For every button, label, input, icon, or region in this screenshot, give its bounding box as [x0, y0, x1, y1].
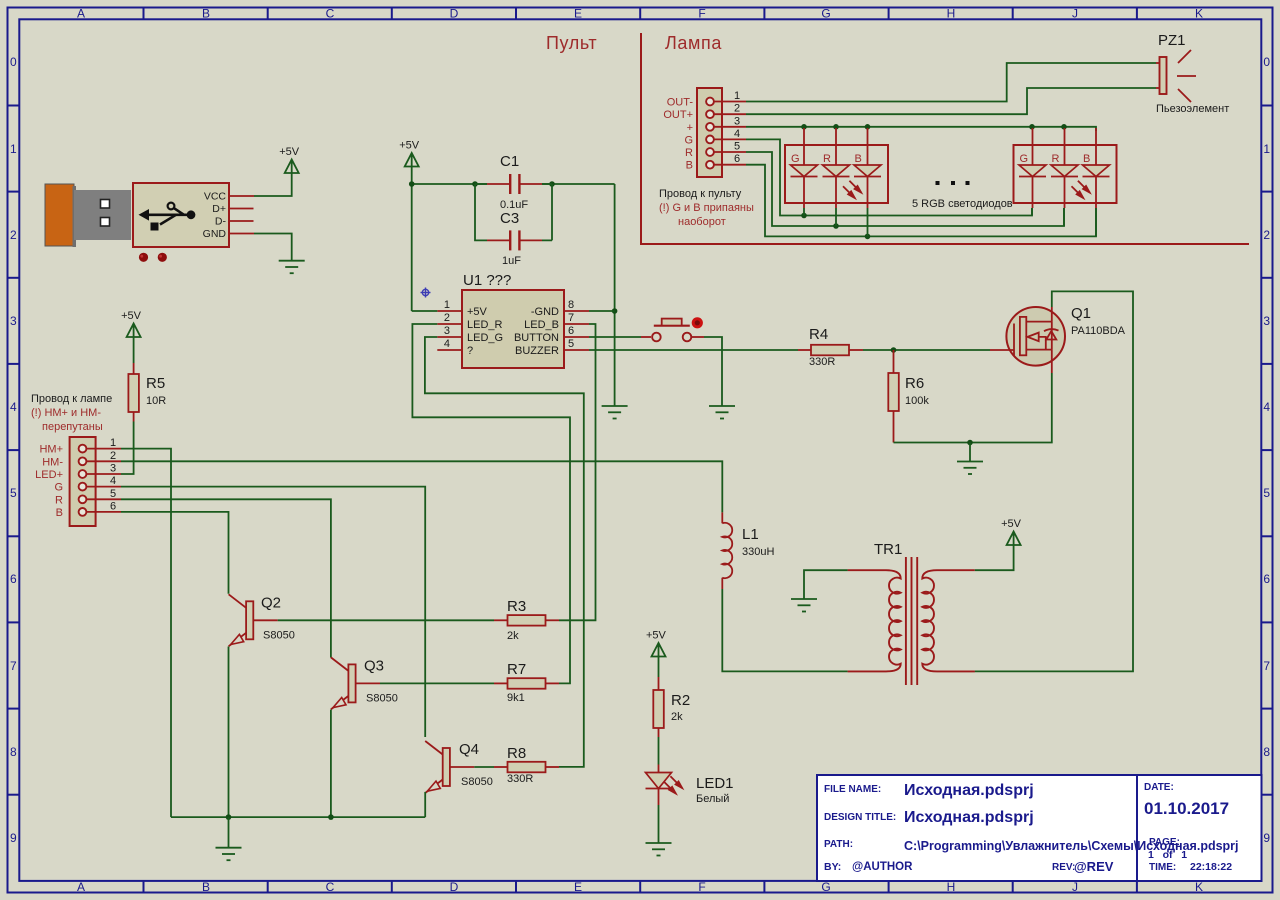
wire OUT+ to PZ1: [746, 88, 1156, 114]
svg-text:F: F: [698, 7, 705, 21]
wire net BUZZER to R4: [589, 349, 798, 351]
wire B net: [746, 165, 1096, 237]
svg-text:J: J: [1072, 880, 1078, 894]
wire button to ground: [704, 337, 722, 406]
wire B pins to rail: [868, 208, 1097, 236]
svg-text:K: K: [1195, 880, 1203, 894]
piezo PZ1: [1156, 32, 1229, 115]
svg-text:B: B: [56, 507, 63, 519]
wire +5V to R5: [133, 337, 135, 363]
wire net LED_R to R7: [412, 324, 570, 683]
wire net BUTTON: [589, 336, 641, 338]
wire LED1 to ground: [658, 805, 660, 843]
junction +5V: [472, 181, 478, 187]
svg-text:C: C: [326, 880, 335, 894]
svg-text:LED_G: LED_G: [467, 332, 503, 344]
resistor R6 100k: [888, 373, 929, 411]
wire R6 stubs: [893, 350, 895, 443]
svg-text:3: 3: [1263, 314, 1270, 328]
USB pin GND stub: [229, 233, 254, 235]
wire C3 branch: [475, 184, 552, 240]
ellipsis dots: [936, 181, 970, 185]
power +5V: [1001, 518, 1022, 545]
svg-text:1: 1: [444, 299, 450, 311]
power +5V: [399, 140, 420, 167]
svg-text:330R: 330R: [809, 356, 835, 368]
svg-text:4: 4: [444, 338, 450, 350]
junction +rail: [1029, 124, 1035, 130]
wire GND to ground: [254, 234, 292, 261]
svg-text:5: 5: [568, 338, 574, 350]
svg-text:Q1: Q1: [1071, 305, 1091, 322]
svg-text:C:\Programming\Увлажнитель\Схе: C:\Programming\Увлажнитель\Схемы\Исходна…: [904, 839, 1239, 853]
wire HM+ pin1 down: [121, 449, 171, 817]
svg-text:1: 1: [1263, 142, 1270, 156]
svg-text:Q4: Q4: [459, 741, 479, 758]
resistor R5 10R: [128, 374, 166, 412]
ground: [602, 406, 628, 419]
svg-text:J: J: [1072, 7, 1078, 21]
wire R8 stubs: [494, 766, 559, 768]
svg-text:перепутаны: перепутаны: [42, 421, 103, 433]
ground: [791, 599, 817, 612]
wire HM- pin2 to L1: [121, 461, 722, 512]
svg-text:6: 6: [110, 500, 116, 512]
svg-text:HM-: HM-: [42, 456, 63, 468]
USB trident icon: [139, 203, 196, 231]
svg-text:LED1: LED1: [696, 775, 734, 792]
svg-text:5: 5: [1263, 486, 1270, 500]
svg-text:9: 9: [1263, 831, 1270, 845]
svg-text:6: 6: [568, 325, 574, 337]
wire emitter ground rail: [171, 816, 425, 818]
svg-text:Пульт: Пульт: [546, 33, 597, 53]
wire R5 to pin3: [121, 422, 134, 475]
wire R net: [746, 152, 1064, 226]
svg-text:E: E: [574, 7, 582, 21]
svg-text:D: D: [450, 7, 459, 21]
wire rail ground stem: [228, 817, 230, 847]
svg-text:1: 1: [110, 437, 116, 449]
svg-text:G: G: [821, 7, 830, 21]
power +5V: [279, 146, 300, 173]
junction +5V: [549, 181, 555, 187]
svg-text:D+: D+: [212, 203, 226, 215]
note Провод к пульту: [659, 188, 754, 228]
svg-text:Лампа: Лампа: [665, 33, 722, 53]
svg-text:10R: 10R: [146, 395, 166, 407]
svg-text:5: 5: [734, 141, 740, 153]
svg-text:6: 6: [734, 153, 740, 165]
svg-text:OUT+: OUT+: [663, 109, 693, 121]
wire L1 to TR1 primary bottom: [722, 589, 847, 671]
junction +rail: [801, 124, 807, 130]
junction gnd rail: [226, 814, 232, 820]
wire Q1 drain to TR1 secondary: [975, 291, 1133, 671]
ground: [279, 261, 305, 274]
svg-text:8: 8: [10, 745, 17, 759]
svg-text:+: +: [687, 122, 693, 134]
wire Q3 emitter down: [330, 710, 332, 818]
svg-text:C3: C3: [500, 210, 519, 227]
wire net LED_B to R3: [559, 324, 596, 620]
wire ground stem: [969, 443, 971, 462]
svg-text:+5V: +5V: [1001, 518, 1022, 530]
wire R2 to LED1: [658, 737, 660, 765]
svg-text:330R: 330R: [507, 773, 533, 785]
svg-text:4: 4: [734, 128, 740, 140]
LED1 Белый: [646, 765, 734, 806]
wire C1 right: [542, 183, 552, 185]
svg-text:G: G: [791, 153, 800, 165]
wire R3 stubs: [494, 619, 559, 621]
wire R5 stubs: [133, 363, 135, 422]
svg-text:?: ?: [467, 345, 473, 357]
lamp section divider: [641, 33, 1249, 244]
wire OUT- to PZ1: [746, 63, 1156, 102]
wire R4 to gate: [863, 349, 990, 351]
svg-text:DATE:: DATE:: [1144, 782, 1174, 793]
svg-text:TIME:: TIME:: [1149, 862, 1176, 873]
junction GND node: [612, 308, 618, 314]
svg-text:8: 8: [568, 299, 574, 311]
wire G pins to rail: [804, 208, 1032, 216]
title block: [817, 775, 1262, 881]
inductor L1 330uH: [722, 512, 774, 589]
svg-text:+5V: +5V: [121, 310, 142, 322]
wire C1 left: [475, 183, 487, 185]
wire R2 stubs: [658, 677, 660, 737]
capacitor C3 1uF: [487, 210, 542, 267]
svg-text:OUT-: OUT-: [667, 97, 694, 109]
svg-text:H: H: [947, 880, 956, 894]
svg-text:GND: GND: [203, 228, 227, 240]
svg-text:2: 2: [1263, 228, 1270, 242]
svg-text:Белый: Белый: [696, 793, 729, 805]
svg-text:6: 6: [1263, 572, 1270, 586]
svg-text:Пьезоэлемент: Пьезоэлемент: [1156, 103, 1229, 115]
wire TR1 secondary top to +5V: [975, 545, 1014, 570]
svg-text:3: 3: [734, 115, 740, 127]
wire Q2 base to R3: [278, 619, 494, 621]
svg-text:4: 4: [1263, 400, 1270, 414]
svg-text:+5V: +5V: [467, 306, 488, 318]
svg-text:9k1: 9k1: [507, 692, 525, 704]
svg-text:R2: R2: [671, 692, 690, 709]
ground: [957, 462, 983, 475]
svg-text:G: G: [821, 880, 830, 894]
svg-text:BUZZER: BUZZER: [515, 345, 559, 357]
wire net LED_G to R8: [425, 337, 584, 767]
svg-text:1: 1: [734, 90, 740, 102]
svg-text:7: 7: [568, 312, 574, 324]
push button SW: [641, 319, 704, 342]
svg-text:R4: R4: [809, 326, 828, 343]
svg-text:(!) HM+ и НМ-: (!) HM+ и НМ-: [31, 407, 101, 419]
svg-text:6: 6: [10, 572, 17, 586]
svg-text:C: C: [326, 7, 335, 21]
button interactive red dot: [692, 317, 703, 328]
svg-text:+5V: +5V: [279, 146, 300, 158]
svg-text:G: G: [684, 134, 693, 146]
svg-text:@AUTHOR: @AUTHOR: [852, 861, 913, 873]
svg-text:U1 ???: U1 ???: [463, 272, 511, 289]
transistor Q3 S8050: [331, 657, 398, 709]
svg-text:2: 2: [734, 103, 740, 115]
wire G net: [746, 139, 1032, 215]
svg-text:S8050: S8050: [461, 776, 493, 788]
svg-text:B: B: [202, 880, 210, 894]
junction B rail: [865, 234, 871, 240]
note Провод к лампе: [31, 393, 112, 433]
junction source gnd: [967, 440, 973, 446]
wire R6 bottom rail to Q1 source: [894, 373, 1052, 443]
svg-text:R8: R8: [507, 745, 526, 762]
svg-text:B: B: [686, 160, 693, 172]
wire TR1 primary top to ground: [804, 570, 848, 598]
transistor Q4 S8050: [425, 741, 493, 793]
svg-text:3: 3: [10, 314, 17, 328]
svg-text:R: R: [685, 147, 693, 159]
power +5V: [121, 310, 142, 337]
svg-text:2: 2: [444, 312, 450, 324]
svg-text:B: B: [202, 7, 210, 21]
wire R pin5 to Q3: [121, 499, 331, 657]
svg-text:S8050: S8050: [263, 629, 295, 641]
svg-text:3: 3: [444, 325, 450, 337]
svg-text:7: 7: [10, 659, 17, 673]
svg-text:E: E: [574, 880, 582, 894]
svg-text:3: 3: [110, 463, 116, 475]
svg-text:F: F: [698, 880, 705, 894]
wire B pin6 to Q2: [121, 512, 229, 594]
svg-text:R3: R3: [507, 598, 526, 615]
junction +rail: [865, 124, 871, 130]
ground: [709, 406, 735, 419]
svg-text:A: A: [77, 7, 85, 21]
connector J2 Провод к лампе: [35, 437, 121, 526]
svg-text:0: 0: [10, 55, 17, 69]
svg-text:PZ1: PZ1: [1158, 32, 1186, 49]
svg-text:2k: 2k: [507, 630, 519, 642]
svg-text:1uF: 1uF: [502, 255, 521, 267]
svg-text:330uH: 330uH: [742, 546, 774, 558]
RGB LED module 1: [785, 128, 888, 208]
svg-text:22:18:22: 22:18:22: [1190, 861, 1232, 873]
svg-text:7: 7: [1263, 659, 1270, 673]
svg-text:PATH:: PATH:: [824, 839, 853, 850]
svg-text:2: 2: [10, 228, 17, 242]
svg-text:01.10.2017: 01.10.2017: [1144, 799, 1229, 818]
USB pin labels: [203, 191, 227, 241]
svg-text:R5: R5: [146, 375, 165, 392]
svg-text:R7: R7: [507, 661, 526, 678]
RGB LED module 2: [1014, 128, 1117, 208]
svg-text:R: R: [55, 494, 63, 506]
IC U1 ???: [437, 272, 589, 368]
connector J3 Провод к пульту: [663, 88, 746, 177]
svg-text:4: 4: [10, 400, 17, 414]
svg-text:K: K: [1195, 7, 1203, 21]
svg-text:R6: R6: [905, 375, 924, 392]
ground: [216, 848, 242, 861]
wire +5V to R2: [658, 657, 660, 678]
svg-text:BY:: BY:: [824, 861, 841, 873]
svg-text:DESIGN TITLE:: DESIGN TITLE:: [824, 812, 896, 823]
wire U1 pin1 +5V: [412, 310, 438, 312]
wire R7 stubs: [494, 682, 559, 684]
svg-text:B: B: [855, 153, 862, 165]
resistor R7 9k1: [507, 661, 546, 704]
wire R4 pin stubs: [798, 349, 863, 351]
svg-text:BUTTON: BUTTON: [514, 332, 559, 344]
resistor R3 2k: [507, 598, 546, 642]
USB LED dots: [139, 253, 167, 262]
svg-text:Исходная.pdsprj: Исходная.pdsprj: [904, 809, 1034, 826]
svg-text:+5V: +5V: [646, 630, 667, 642]
svg-text:наоборот: наоборот: [678, 216, 726, 228]
junction +rail: [1061, 124, 1067, 130]
svg-text:Провод к лампе: Провод к лампе: [31, 393, 112, 405]
USB pin D+ stub: [229, 208, 254, 210]
svg-text:PA110BDA: PA110BDA: [1071, 325, 1126, 337]
svg-text:R: R: [823, 153, 831, 165]
svg-text:0: 0: [1263, 55, 1270, 69]
svg-text:D-: D-: [215, 216, 227, 228]
svg-text:+5V: +5V: [399, 140, 420, 152]
power +5V: [646, 630, 667, 657]
svg-text:A: A: [77, 880, 85, 894]
resistor R8 330R: [507, 745, 546, 785]
svg-text:H: H: [947, 7, 956, 21]
wire Q3 base to R7: [380, 682, 494, 684]
svg-text:G: G: [1020, 153, 1029, 165]
svg-text:C1: C1: [500, 153, 519, 170]
svg-text:B: B: [1083, 153, 1090, 165]
connector J1 USB plug: [45, 183, 229, 247]
junction +5V: [409, 181, 415, 187]
svg-text:FILE NAME:: FILE NAME:: [824, 784, 881, 795]
svg-text:HM+: HM+: [39, 444, 63, 456]
svg-text:REV:: REV:: [1052, 862, 1075, 873]
junction R rail: [833, 223, 839, 229]
svg-text:9: 9: [10, 831, 17, 845]
svg-text:LED_R: LED_R: [467, 319, 503, 331]
svg-text:LED+: LED+: [35, 469, 63, 481]
svg-text:-GND: -GND: [531, 306, 559, 318]
svg-text:2k: 2k: [671, 711, 683, 723]
transistor Q2 S8050: [229, 594, 295, 646]
resistor R2 2k: [653, 690, 690, 728]
svg-text:VCC: VCC: [204, 191, 227, 203]
junction G rail: [801, 213, 807, 219]
svg-text:R: R: [1052, 153, 1060, 165]
wire G pin4 to Q4: [121, 487, 425, 737]
svg-text:Q2: Q2: [261, 594, 281, 611]
svg-text:S8050: S8050: [366, 692, 398, 704]
wire Q4 emitter down: [424, 792, 426, 817]
svg-text:8: 8: [1263, 745, 1270, 759]
wire + rail: [746, 127, 1096, 131]
svg-text:100k: 100k: [905, 395, 929, 407]
svg-text:5: 5: [10, 486, 17, 500]
wire U1 pin8 GND: [589, 310, 615, 312]
svg-text:D: D: [450, 880, 459, 894]
wire +5V rail: [412, 166, 615, 406]
junction +rail: [833, 124, 839, 130]
USB pin D- stub: [229, 220, 254, 222]
svg-text:Q3: Q3: [364, 657, 384, 674]
wire Q4 base to R8: [474, 766, 494, 768]
svg-text:5 RGB светодиодов: 5 RGB светодиодов: [912, 198, 1013, 210]
svg-text:TR1: TR1: [874, 541, 902, 558]
wire R pins to rail: [836, 208, 1064, 226]
svg-text:L1: L1: [742, 526, 759, 543]
svg-text:2: 2: [110, 450, 116, 462]
wire Q2 emitter down: [228, 647, 230, 818]
svg-text:Провод к пульту: Провод к пульту: [659, 188, 742, 200]
svg-text:5: 5: [110, 488, 116, 500]
transistor Q1 PA110BDA MOSFET: [990, 305, 1126, 373]
svg-text:4: 4: [110, 475, 116, 487]
svg-text:1: 1: [10, 142, 17, 156]
wire VCC to +5V: [254, 173, 292, 196]
ground: [646, 843, 672, 856]
svg-text:G: G: [54, 482, 63, 494]
svg-text:Исходная.pdsprj: Исходная.pdsprj: [904, 782, 1034, 799]
USB pin VCC stub: [229, 195, 254, 197]
transformer TR1: [848, 541, 975, 685]
svg-text:LED_B: LED_B: [524, 319, 559, 331]
svg-text:(!) G и B припаяны: (!) G и B припаяны: [659, 202, 754, 214]
origin marker: [421, 288, 431, 298]
capacitor C1 0.1uF: [487, 153, 542, 211]
junction gate node: [891, 347, 897, 353]
svg-text:@REV: @REV: [1074, 859, 1114, 874]
resistor R4 330R: [809, 326, 849, 368]
junction gnd rail: [328, 814, 334, 820]
